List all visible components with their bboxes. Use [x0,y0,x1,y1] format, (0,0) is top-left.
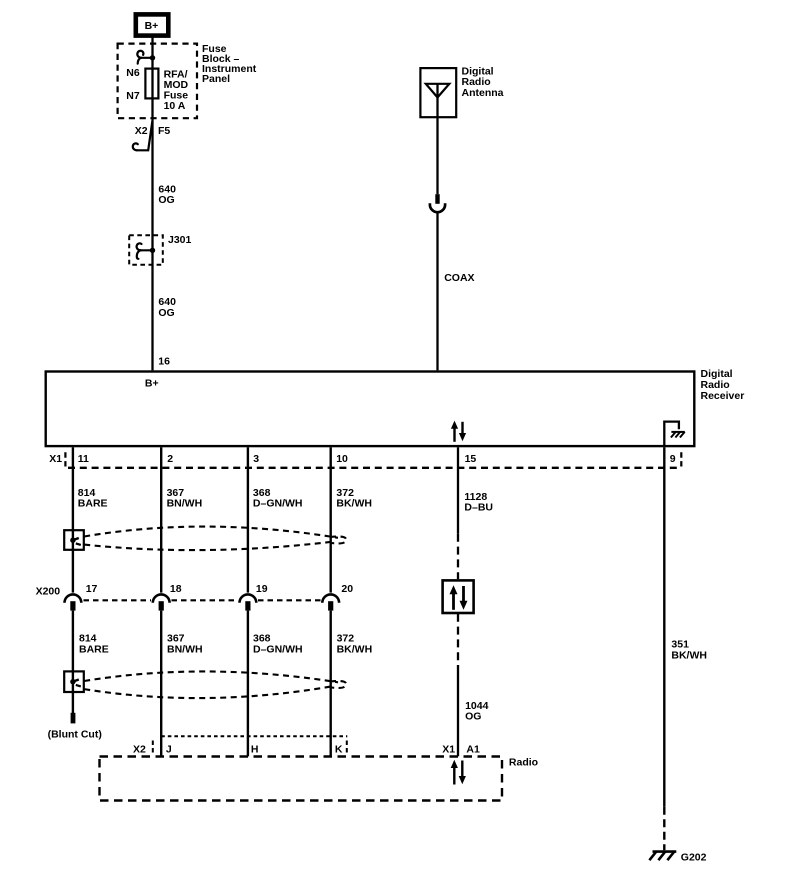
svg-text:F5: F5 [158,125,170,137]
label: RFA/MOD Fuse 10 A [164,68,189,112]
wire 372 BK/WH upper segment [330,447,332,592]
wire 351 BK/WH solid segment [663,447,665,807]
shield drain splice box 1 [64,530,84,550]
svg-text:3: 3 [253,453,259,465]
wire 1044 OG solid segment [457,670,459,757]
svg-text:18: 18 [170,583,182,595]
wire 367 BN/WH upper segment [160,447,162,592]
shield ellipse 1 (dashed) [84,527,346,551]
svg-text:19: 19 [256,583,268,595]
svg-text:9: 9 [670,453,676,465]
svg-text:B+: B+ [145,20,159,32]
wire: antenna lead [436,84,438,194]
svg-text:Antenna: Antenna [462,87,504,99]
connector X1 dashed interface line [65,452,681,468]
svg-text:BK/WH: BK/WH [336,498,372,510]
battery feed B+ box [136,14,169,35]
terminal hook at connector X2 pin F5 [133,122,153,151]
wire 1128 D-BU solid segment [457,447,459,534]
radio connector X2 dotted interface line [161,735,347,737]
label: connector X1 and pin numbers [49,453,676,465]
label: Fuse Block - Instrument Panel [202,43,257,85]
svg-text:COAX: COAX [444,272,474,284]
svg-text:N7: N7 [126,90,140,102]
svg-text:Panel: Panel [202,73,230,85]
wire 1128 D-BU dashed segment [457,534,459,579]
svg-text:Receiver: Receiver [701,390,745,402]
transform box on wire 1128/1044 [443,580,474,613]
svg-text:J301: J301 [168,234,192,246]
wire: B+ feed down to receiver pin 16 [151,36,153,370]
svg-text:D–GN/WH: D–GN/WH [253,643,303,655]
svg-text:G202: G202 [681,851,707,863]
radio dashed box [100,757,503,801]
svg-text:X200: X200 [36,585,61,597]
wire 372 BK/WH lower segment [330,611,332,757]
svg-text:H: H [251,743,259,755]
label: radio connector pins X2 J H K X1 A1 [133,743,480,755]
fuse F5 (RFA/MOD Fuse 10 A) [145,69,158,99]
svg-text:OG: OG [158,307,174,319]
svg-text:BN/WH: BN/WH [167,643,203,655]
svg-text:X2: X2 [133,743,146,755]
connector X2 boundary tick [152,741,154,756]
svg-text:BARE: BARE [78,498,108,510]
svg-text:10 A: 10 A [164,100,186,112]
svg-text:BARE: BARE [79,643,109,655]
coax in-line connector (pin and cup) [430,194,445,212]
wire 368 D-GN/WH upper segment [247,447,249,592]
svg-text:B+: B+ [145,377,159,389]
svg-text:X1: X1 [442,743,455,755]
wire 814 BARE lower segment [72,611,74,713]
svg-text:10: 10 [336,453,348,465]
svg-text:OG: OG [158,194,174,206]
svg-text:15: 15 [465,453,477,465]
svg-text:X2: X2 [135,125,148,137]
svg-text:J: J [166,743,172,755]
svg-text:BN/WH: BN/WH [167,498,203,510]
svg-text:BK/WH: BK/WH [337,643,373,655]
wire 814 BARE upper segment [72,447,74,592]
svg-text:11: 11 [78,453,89,465]
svg-text:16: 16 [158,356,170,368]
wire 367 BN/WH lower segment [160,611,162,757]
internal ground symbol on pin 9 inside receiver [664,422,685,447]
svg-text:D–GN/WH: D–GN/WH [253,498,303,510]
shield drain splice box 2 [64,671,84,692]
terminal hook at fuse block input with junction dot [137,51,155,64]
svg-text:(Blunt Cut): (Blunt Cut) [48,729,102,741]
label: X200 pin numbers 17 18 19 20 [86,583,354,595]
label: Digital Radio Antenna [462,66,504,99]
connector X200 terminal arcs and pins [65,594,340,602]
svg-text:BK/WH: BK/WH [671,650,707,662]
wire 351 BK/WH dashed segment [663,807,665,851]
wire 1044 OG dashed segment [457,614,459,670]
svg-text:351: 351 [671,638,689,650]
fuse block - instrument panel dashed box [118,44,197,119]
digital radio antenna symbol [420,68,456,117]
svg-text:2: 2 [167,453,173,465]
svg-text:K: K [335,743,343,755]
bidirectional arrows below pin A1 inside radio [451,760,466,785]
splice J301 dashed box [129,234,191,265]
ground G202 symbol [649,852,676,861]
svg-text:17: 17 [86,583,98,595]
svg-text:N6: N6 [126,67,140,79]
svg-text:Radio: Radio [509,756,538,768]
svg-text:20: 20 [341,583,353,595]
svg-text:D–BU: D–BU [464,502,493,514]
wire: COAX to receiver [436,212,438,371]
label: Digital Radio Receiver [701,368,745,402]
connector K boundary tick [346,741,348,756]
bidirectional arrows above pin 15 inside receiver [451,421,466,442]
svg-text:OG: OG [465,711,481,723]
digital radio receiver box [46,372,695,447]
svg-text:X1: X1 [49,453,62,465]
connector X200 dashed interface line [84,599,321,601]
wire 368 D-GN/WH lower segment [247,611,249,757]
svg-text:A1: A1 [466,743,480,755]
blunt cut end of drain wire [71,713,76,724]
shield ellipse 2 (dashed) [84,671,346,698]
